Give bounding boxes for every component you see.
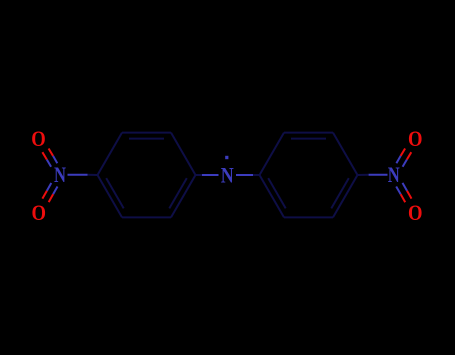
svg-text:N: N xyxy=(54,162,66,187)
bond C8(ring2)-N3 xyxy=(357,174,387,176)
double bond N1=O1 xyxy=(42,149,57,167)
double bond N3=O3 xyxy=(396,149,411,167)
bond C4(ring1)-N2 xyxy=(195,174,218,176)
svg-text:N: N xyxy=(388,162,400,187)
svg-text:O: O xyxy=(32,200,47,225)
svg-text:O: O xyxy=(31,126,46,151)
svg-text:O: O xyxy=(408,126,423,151)
svg-text:O: O xyxy=(408,200,423,225)
bond N2-C5(ring2) xyxy=(236,174,260,176)
double bond N3=O4 xyxy=(396,183,411,202)
radical electron dot on N2 xyxy=(225,156,228,159)
svg-text:N: N xyxy=(221,163,234,188)
benzene ring 2 (right) xyxy=(260,133,358,218)
double bond N1=O2 xyxy=(42,183,57,202)
benzene ring 1 (left) xyxy=(98,133,196,218)
bond N1-C1 (nitro to ring 1) xyxy=(68,174,98,176)
